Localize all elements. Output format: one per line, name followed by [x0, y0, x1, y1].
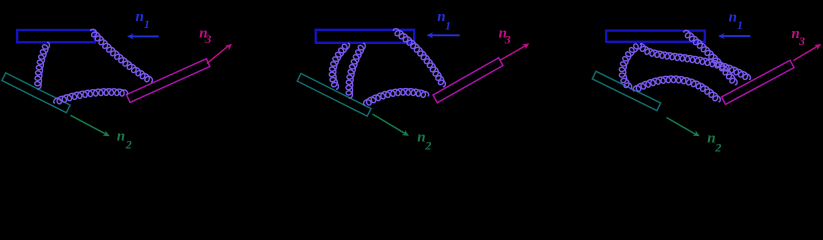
wave packet n2 (fig 1) [2, 73, 70, 113]
arrow n1 (fig 2) [427, 32, 460, 38]
svg-text:2: 2 [714, 141, 721, 155]
phonon coil n2-n3 (fig 1) [54, 89, 128, 104]
arrow n2 (fig 1) [71, 115, 110, 136]
label n3 (fig 1) [199, 26, 211, 46]
wave packet n3 (fig 2) [433, 58, 503, 103]
svg-text:1: 1 [737, 18, 743, 32]
arrow n1 (fig 1) [127, 33, 159, 39]
phonon coil n1-n2 (fig 3) [619, 44, 641, 89]
svg-text:1: 1 [144, 17, 150, 31]
svg-text:2: 2 [424, 139, 431, 153]
svg-text:n: n [417, 129, 425, 145]
wave packet n3 (fig 3) [722, 60, 795, 104]
wave packet n1 (fig 3) [606, 31, 705, 42]
label n2 (fig 3) [707, 130, 721, 154]
svg-text:n: n [117, 129, 125, 145]
phonon coil n1-n3 (fig 2) [393, 29, 445, 87]
label n2 (fig 2) [417, 129, 431, 152]
wave packet n3 (fig 1) [127, 59, 210, 103]
label n2 (fig 1) [117, 129, 132, 152]
arrow n3 (fig 3) [794, 44, 822, 61]
phonon coil n2-n3 (fig 2) [364, 89, 429, 106]
phonon coil n1-n2 (fig 1) [35, 42, 50, 89]
svg-text:3: 3 [504, 32, 511, 46]
svg-text:n: n [136, 9, 144, 25]
label n1 (fig 2) [437, 9, 451, 32]
phonon coil n1-n3 steep (fig 3) [684, 30, 737, 84]
arrow n3 (fig 1) [207, 44, 232, 64]
arrow n3 (fig 2) [501, 43, 530, 60]
phonon coil n1-n3 arc (fig 3) [640, 44, 750, 80]
wave packet n2 (fig 2) [297, 74, 371, 117]
label n1 (fig 1) [136, 9, 150, 31]
label n1 (fig 3) [729, 9, 743, 32]
label n3 (fig 3) [791, 26, 805, 48]
arrow n1 (fig 3) [718, 33, 750, 39]
svg-text:2: 2 [125, 138, 132, 152]
phonon coil n1-n2 b (fig 2) [346, 43, 365, 98]
phonon coil n2-n3 (fig 3) [633, 76, 720, 102]
svg-text:3: 3 [204, 32, 211, 46]
wave packet n1 (fig 1) [17, 30, 95, 42]
arrow n2 (fig 2) [373, 114, 410, 136]
svg-text:1: 1 [445, 18, 451, 32]
phonon coil n1-n3 (fig 1) [91, 29, 153, 82]
label n3 (fig 2) [499, 26, 511, 47]
phonon coil n1-n2 a (fig 2) [329, 43, 349, 89]
arrow n2 (fig 3) [667, 118, 700, 137]
wave packet n1 (fig 2) [316, 30, 415, 43]
svg-text:n: n [707, 130, 715, 146]
svg-text:n: n [729, 9, 737, 25]
wave packet n2 (fig 3) [592, 71, 660, 110]
svg-text:3: 3 [798, 34, 805, 48]
